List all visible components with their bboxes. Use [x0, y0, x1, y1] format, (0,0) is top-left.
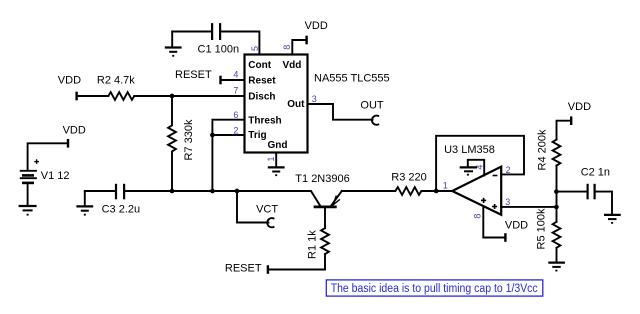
svg-text:RESET: RESET	[225, 263, 262, 275]
svg-text:Cont: Cont	[248, 60, 271, 71]
node junction (pin3 tap)	[554, 205, 559, 210]
svg-text:Out: Out	[287, 99, 305, 110]
ground (555)	[268, 167, 285, 175]
svg-text:R5 100k: R5 100k	[536, 208, 548, 249]
wire Out pin 3 to OUT terminal	[308, 104, 373, 120]
svg-text:6: 6	[233, 110, 238, 120]
svg-text:3: 3	[312, 94, 317, 104]
capacitor C2 1n	[581, 166, 610, 199]
capacitor C1 100n	[198, 23, 240, 56]
transistor T1 2N3906	[295, 173, 349, 228]
ground (battery)	[19, 206, 37, 215]
wire feedback loop to pin 2	[436, 136, 524, 191]
ground (R5)	[548, 263, 565, 271]
svg-text:1: 1	[443, 180, 448, 190]
node junction (C2 tap)	[554, 189, 559, 194]
svg-text:R2 4.7k: R2 4.7k	[97, 74, 135, 86]
wire emitter to R3	[342, 190, 395, 192]
capacitor C3 2.2u	[102, 184, 141, 216]
svg-text:5: 5	[250, 46, 260, 51]
wire pin 8 to VDD	[483, 207, 504, 238]
svg-text:R1 1k: R1 1k	[307, 230, 319, 259]
wire C1 left	[172, 31, 211, 33]
ground (C2)	[604, 215, 621, 223]
svg-text:VDD: VDD	[63, 125, 86, 137]
svg-text:Vdd: Vdd	[283, 60, 302, 71]
svg-text:C1 100n: C1 100n	[198, 44, 240, 56]
input terminal RESET (top)	[175, 69, 221, 85]
svg-text:OUT: OUT	[360, 100, 384, 112]
wire R3 to op-amp output	[421, 190, 452, 192]
power terminal VDD (R2 branch)	[58, 74, 81, 100]
wire Trig pin 2	[212, 134, 244, 136]
wire VCT branch	[237, 191, 268, 223]
wire RESET to pin 4	[221, 79, 245, 81]
wire C1 right to pin 5	[221, 32, 259, 55]
wire C3 ground to C3 left plate	[85, 190, 115, 192]
node junction (R2/R7)	[170, 94, 175, 99]
wire battery minus to ground	[27, 184, 29, 206]
power terminal VDD (R4)	[568, 101, 591, 125]
svg-text:R3 220: R3 220	[391, 172, 426, 184]
svg-text:4: 4	[233, 70, 238, 80]
node junction (Trig vertical / rail)	[210, 189, 215, 194]
svg-text:R4 200k: R4 200k	[537, 129, 549, 170]
node junction (Thresh/Trig)	[210, 133, 215, 138]
svg-text:VCT: VCT	[256, 203, 278, 215]
svg-text:V1 12: V1 12	[41, 170, 70, 182]
svg-text:2: 2	[506, 165, 511, 175]
svg-text:8: 8	[282, 45, 292, 50]
output terminal OUT	[360, 100, 384, 125]
svg-text:Gnd: Gnd	[268, 140, 288, 151]
resistor R7 330k	[168, 96, 195, 191]
wire R1 to RESET terminal	[269, 254, 326, 269]
wire R2 to Disch pin 7	[134, 95, 244, 97]
svg-text:R7 330k: R7 330k	[183, 119, 195, 160]
node junction (output/feedback)	[434, 189, 439, 194]
svg-text:VDD: VDD	[58, 74, 81, 86]
node junction (VCT/rail)	[235, 189, 240, 194]
wire VDD to R4	[557, 121, 571, 140]
resistor R2 4.7k	[97, 74, 135, 100]
svg-text:3: 3	[505, 197, 510, 207]
battery V1 12	[20, 159, 70, 183]
ground (C3)	[76, 191, 93, 215]
wire pin 8 to VDD	[292, 40, 305, 55]
wire R5 to ground	[556, 248, 558, 262]
svg-text:NA555 TLC555: NA555 TLC555	[314, 72, 390, 84]
svg-text:Reset: Reset	[248, 76, 276, 87]
wire main timing rail	[125, 190, 310, 192]
svg-text:T1 2N3906: T1 2N3906	[295, 173, 349, 185]
wire Thresh pin 6 to Trig vertical	[212, 120, 244, 191]
wire pin 4 to ground	[468, 160, 484, 176]
wire R4 to R5	[556, 166, 558, 222]
wire 555 Gnd pin 1 to ground	[275, 153, 277, 167]
svg-text:RESET: RESET	[175, 69, 212, 81]
resistor R4 200k	[537, 129, 561, 170]
ground (C1)	[165, 32, 182, 56]
node junction (R7/rail)	[170, 189, 175, 194]
svg-text:C3 2.2u: C3 2.2u	[102, 204, 141, 216]
op-amp U3 LM358	[444, 144, 501, 215]
IC 555 timer (NA555 TLC555)	[245, 55, 308, 153]
svg-text:VDD: VDD	[568, 101, 591, 113]
wire C2 branch	[556, 191, 586, 193]
resistor R5 100k	[536, 208, 561, 249]
input terminal RESET (bottom)	[225, 263, 268, 275]
wire C2 to ground	[596, 192, 612, 215]
svg-text:8: 8	[472, 214, 482, 219]
svg-text:The basic idea is to pull timi: The basic idea is to pull timing cap to …	[331, 283, 538, 295]
svg-text:Disch: Disch	[248, 92, 275, 103]
comment note box	[326, 280, 543, 296]
resistor R1 1k	[307, 228, 329, 259]
wire VDD to R2	[77, 95, 109, 97]
svg-text:U3 LM358: U3 LM358	[444, 144, 495, 156]
output terminal VCT	[256, 203, 278, 227]
power terminal VDD (555 pin 8)	[305, 20, 328, 44]
power terminal VDD (battery branch)	[63, 125, 86, 148]
svg-text:Thresh: Thresh	[248, 115, 281, 126]
svg-text:7: 7	[233, 85, 238, 95]
ground (op-amp pin 4)	[460, 167, 477, 174]
svg-text:VDD: VDD	[305, 20, 328, 32]
resistor R3 220	[391, 172, 426, 195]
svg-text:2: 2	[233, 125, 238, 135]
wire pin 3 to divider	[501, 206, 556, 208]
svg-text:Trig: Trig	[248, 130, 266, 141]
power terminal VDD (op-amp pin 8)	[505, 220, 528, 242]
wire VDD terminal to battery plus	[28, 143, 68, 170]
svg-text:C2 1n: C2 1n	[581, 166, 610, 178]
svg-text:1: 1	[266, 156, 276, 161]
svg-text:VDD: VDD	[505, 220, 528, 232]
